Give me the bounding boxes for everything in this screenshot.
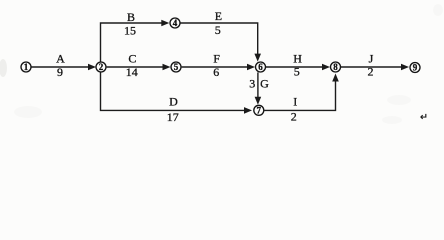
wire G vertical 6->7	[257, 72, 259, 97]
svg-text:5: 5	[215, 23, 221, 37]
arrowhead E down	[254, 54, 261, 62]
svg-text:A: A	[56, 52, 65, 66]
wire I path 7 right then up to 8	[264, 82, 335, 111]
svg-text:2: 2	[368, 65, 374, 79]
node 8 circle	[331, 62, 341, 72]
svg-text:6: 6	[213, 65, 219, 79]
svg-text:G: G	[260, 77, 269, 91]
svg-text:6: 6	[258, 62, 263, 72]
wire A arrow 1->2	[32, 66, 89, 68]
node 9 circle	[410, 63, 420, 73]
arrowhead H	[322, 64, 330, 71]
svg-text:1: 1	[24, 62, 29, 72]
svg-text:J: J	[369, 52, 374, 66]
svg-text:7: 7	[257, 106, 262, 116]
node 7 circle	[254, 105, 264, 115]
svg-text:14: 14	[126, 65, 138, 79]
svg-text:2: 2	[99, 62, 104, 72]
svg-text:9: 9	[413, 63, 418, 73]
arrowhead I up	[332, 74, 339, 82]
svg-text:8: 8	[333, 62, 338, 72]
node 4 circle	[170, 18, 180, 28]
arrowhead G down	[255, 97, 262, 105]
node 5 circle	[171, 62, 181, 72]
node 1 circle	[21, 62, 31, 72]
svg-text:B: B	[127, 10, 135, 24]
wire C arrow 2->5	[107, 66, 163, 68]
svg-text:3: 3	[249, 77, 255, 91]
wire J arrow 8->9	[341, 66, 402, 68]
svg-text:5: 5	[174, 62, 179, 72]
wire H arrow 6->8	[266, 66, 323, 68]
svg-text:I: I	[293, 95, 297, 109]
arrowhead C	[163, 64, 171, 71]
wire B path 2 up and right to 4	[101, 23, 162, 62]
svg-text:17: 17	[167, 110, 179, 124]
svg-text:2: 2	[291, 110, 297, 124]
svg-text:E: E	[215, 9, 222, 23]
node 2 circle	[96, 62, 106, 72]
arrowhead F	[247, 64, 255, 71]
wire D path 2 down and right to 7	[101, 72, 245, 110]
wire F arrow 5->6	[182, 66, 248, 68]
svg-text:9: 9	[57, 65, 63, 79]
svg-text:↵: ↵	[420, 113, 428, 123]
svg-text:15: 15	[124, 24, 136, 38]
arrowhead A	[88, 64, 96, 71]
arrowhead J	[401, 64, 409, 71]
svg-text:D: D	[169, 95, 178, 109]
svg-text:4: 4	[173, 18, 178, 28]
svg-text:5: 5	[294, 64, 300, 78]
wire E path 4 right then down to 6	[180, 23, 257, 55]
svg-text:F: F	[213, 52, 220, 66]
node 6 circle	[256, 62, 266, 72]
svg-text:C: C	[128, 52, 136, 66]
arrowhead D	[244, 107, 252, 114]
arrowhead B	[161, 20, 169, 27]
